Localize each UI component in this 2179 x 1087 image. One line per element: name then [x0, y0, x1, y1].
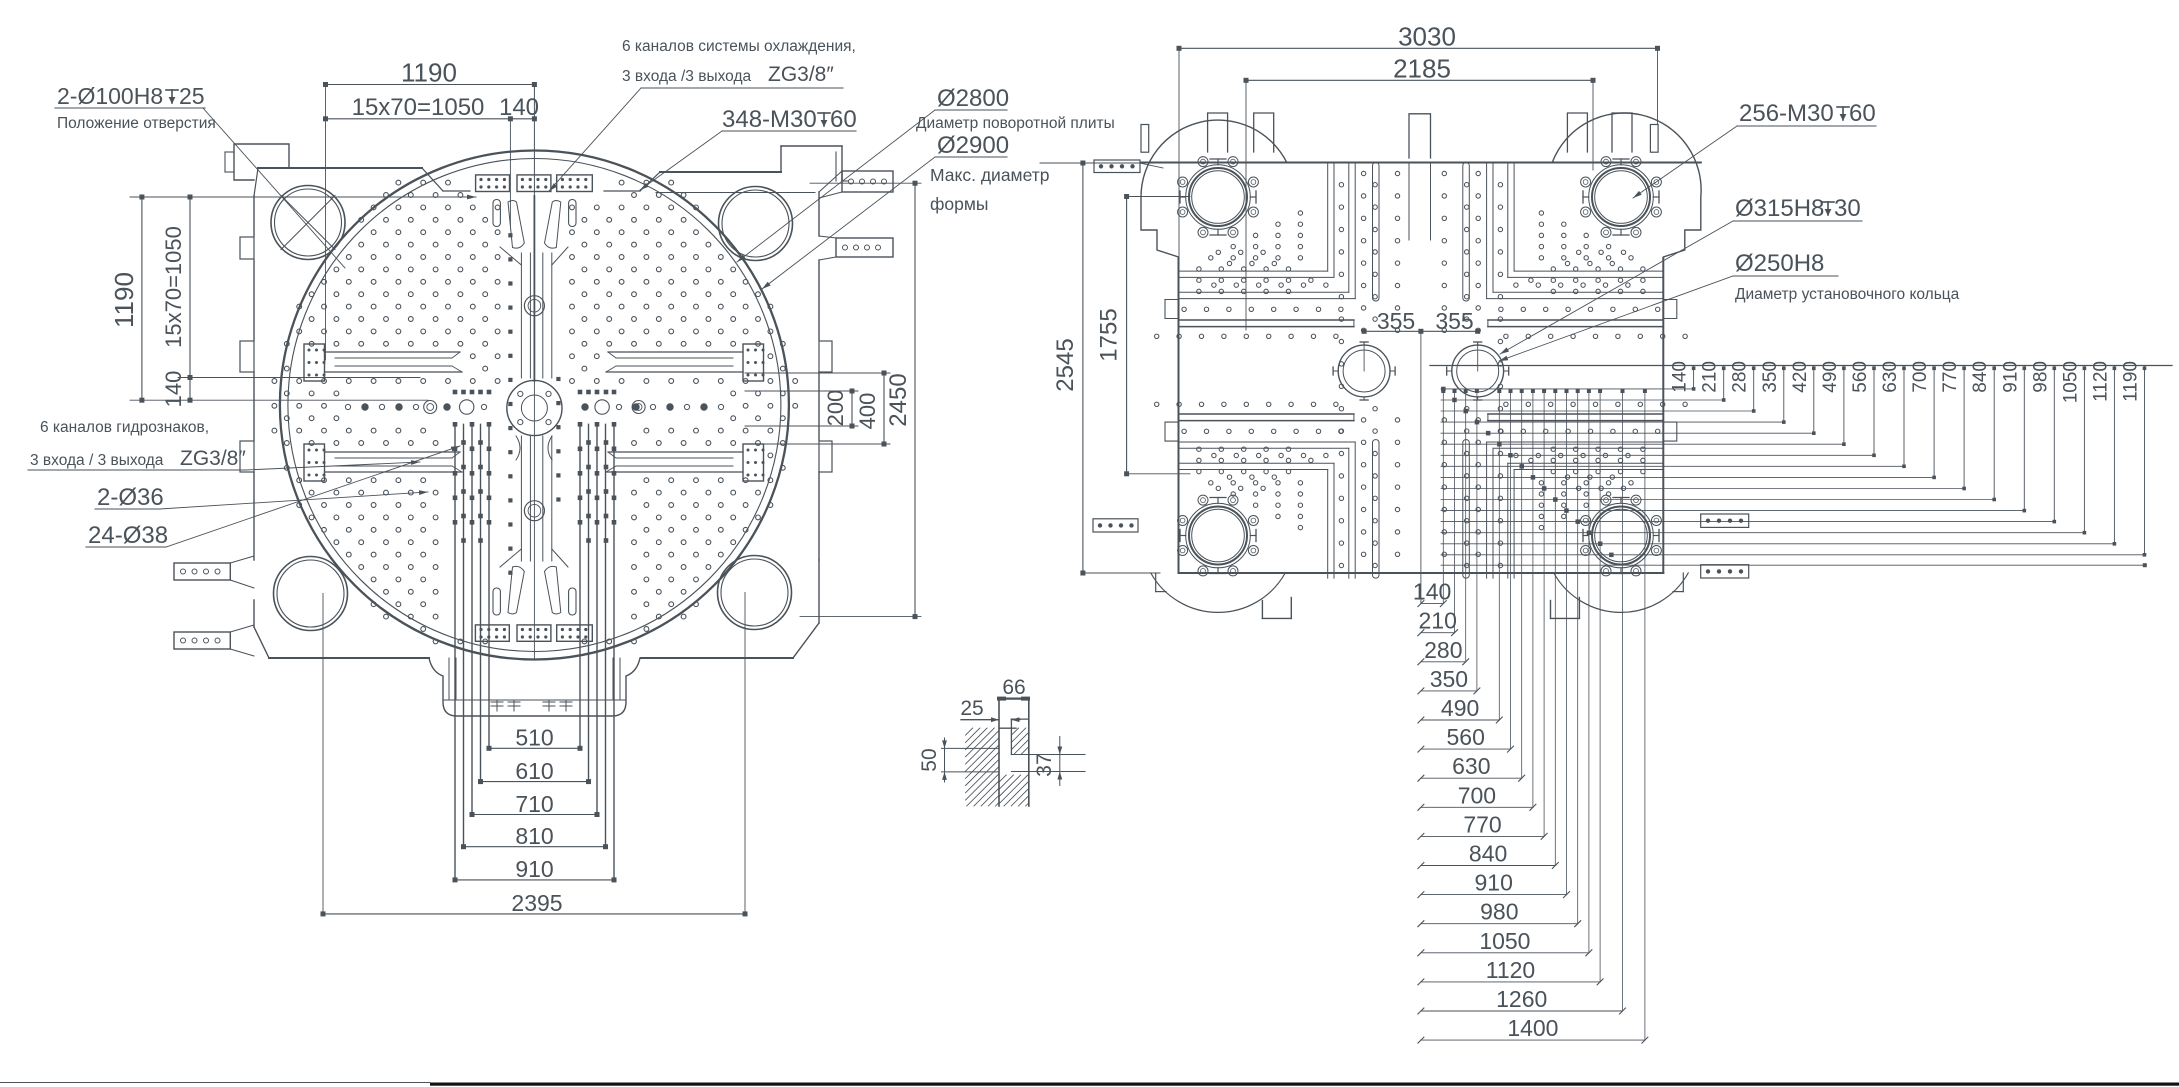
svg-text:280: 280 — [1730, 361, 1751, 393]
svg-text:770: 770 — [1463, 811, 1501, 837]
edge cooling block left-bottom — [1093, 519, 1138, 532]
foot tab bottom-right — [1550, 601, 1552, 619]
extension top mid — [509, 119, 511, 225]
svg-text:490: 490 — [1441, 695, 1479, 721]
hole pattern lattice — [272, 180, 798, 644]
dimension 200 right — [851, 391, 853, 426]
fan reference line — [1430, 365, 2172, 367]
svg-text:840: 840 — [1970, 361, 1991, 393]
svg-text:ZG3/8″: ZG3/8″ — [180, 447, 246, 470]
hydraulic square holes cluster — [453, 422, 458, 427]
svg-text:1260: 1260 — [1496, 986, 1547, 1012]
svg-text:3030: 3030 — [1398, 22, 1456, 52]
left edge T-slot tab upper — [240, 341, 254, 372]
corner hole bottom-left — [274, 557, 348, 631]
right edge tab upper — [819, 341, 832, 372]
leader cooling — [549, 88, 641, 191]
svg-text:700: 700 — [1458, 782, 1496, 808]
svg-text:1120: 1120 — [2090, 361, 2111, 402]
table border line bottom — [430, 1083, 2179, 1086]
top left small tab — [1141, 125, 1149, 153]
dimension 1190 left vertical — [141, 197, 143, 400]
svg-text:140: 140 — [161, 371, 186, 408]
dimension 15x70=1050 left vertical — [189, 197, 191, 400]
top right small tab — [1650, 125, 1658, 153]
svg-text:1050: 1050 — [2060, 361, 2081, 403]
center axis right view — [1420, 331, 1422, 603]
dimension 710 — [472, 814, 597, 816]
svg-text:3 входа /3 выхода: 3 входа /3 выхода — [622, 68, 751, 85]
svg-text:910: 910 — [515, 856, 553, 882]
circle D2800 rotary plate diameter — [288, 159, 781, 652]
dimension 810 — [464, 846, 606, 848]
ear bottom-left — [1151, 573, 1285, 612]
foot tab bottom-left — [1261, 601, 1263, 619]
svg-text:910: 910 — [2000, 361, 2021, 393]
svg-text:15x70=1050: 15x70=1050 — [352, 94, 485, 121]
svg-text:Положение отверстия: Положение отверстия — [57, 115, 216, 132]
center column lower ribs — [520, 436, 522, 561]
svg-text:560: 560 — [1447, 724, 1485, 750]
bottom center cooling connector block 2 — [517, 625, 551, 641]
svg-text:280: 280 — [1424, 637, 1462, 663]
svg-text:ZG3/8″: ZG3/8″ — [768, 63, 834, 86]
dimension 15x70=1050 and 140 top — [326, 118, 535, 120]
detail dim 37 — [1059, 737, 1061, 786]
svg-text:140: 140 — [1670, 361, 1691, 393]
svg-text:1050: 1050 — [1479, 928, 1530, 954]
svg-text:420: 420 — [1790, 361, 1811, 393]
top center cooling connector block 3 — [557, 175, 593, 192]
svg-text:37: 37 — [1033, 753, 1056, 776]
right dims extensions — [745, 372, 890, 374]
right edge tab lower — [819, 441, 832, 472]
tie-bar holes with bolt circles — [1186, 165, 1251, 230]
right view: fixed platen outline — [1141, 162, 1701, 164]
upper small hole D36 — [524, 296, 544, 316]
leader 2-D36 — [160, 492, 428, 509]
svg-text:400: 400 — [855, 393, 880, 430]
svg-text:формы: формы — [930, 194, 988, 214]
corner hole top-right — [719, 187, 793, 261]
dimension 910 — [455, 879, 614, 881]
bottom ladder dimensions — [1421, 603, 1443, 605]
section hatching — [966, 728, 1029, 806]
section detail: T-slot profile — [999, 697, 1029, 699]
T-slot arm lower-right with end block — [743, 444, 764, 481]
svg-text:Макс. диаметр: Макс. диаметр — [930, 165, 1049, 185]
svg-text:348-M30: 348-M30 — [722, 106, 817, 133]
svg-text:510: 510 — [515, 725, 553, 751]
hole pattern right view — [1155, 171, 1688, 567]
svg-text:6 каналов системы охлаждения,: 6 каналов системы охлаждения, — [622, 38, 856, 55]
left edge hydraulic block upper — [174, 563, 230, 580]
left dims extension bottom — [130, 399, 428, 401]
dimension 510 — [489, 747, 580, 749]
corner hole top-left 2-D100H8 — [271, 186, 345, 260]
top center cooling connector block 2 — [517, 175, 551, 192]
bottom-left chamfer — [254, 627, 269, 658]
T-slot arm upper-left with end block — [304, 344, 325, 381]
svg-text:25: 25 — [179, 83, 205, 109]
left edge hydraulic block lower — [174, 632, 230, 649]
svg-text:140: 140 — [499, 94, 539, 121]
svg-text:210: 210 — [1419, 608, 1457, 634]
left edge small step — [240, 237, 254, 259]
right edge block upper B — [836, 238, 893, 257]
svg-text:630: 630 — [1452, 753, 1490, 779]
svg-text:Ø2900: Ø2900 — [937, 132, 1009, 159]
top center cooling connector block 1 — [476, 175, 510, 192]
leader hydraulic — [246, 462, 420, 470]
svg-text:350: 350 — [1760, 361, 1781, 393]
svg-text:630: 630 — [1880, 361, 1901, 393]
dimension 1190 top — [326, 84, 535, 86]
svg-text:490: 490 — [1820, 361, 1841, 393]
center boss circle — [507, 380, 562, 435]
top-left stepped tab — [234, 144, 289, 180]
ear bottom-right — [1554, 573, 1688, 612]
leader D315H8 — [1500, 221, 1733, 354]
left edge T-slot tab lower — [240, 441, 254, 472]
dimension 2185 — [1246, 79, 1593, 81]
lower small hole D36 — [524, 501, 544, 521]
left view: rotary platen plate outline — [258, 167, 422, 169]
svg-text:256-M30: 256-M30 — [1739, 100, 1834, 127]
edge cooling block right-top — [1701, 514, 1749, 527]
left dims extension mid — [178, 377, 420, 379]
svg-text:25: 25 — [960, 697, 983, 720]
svg-text:140: 140 — [1413, 579, 1451, 605]
svg-text:700: 700 — [1910, 361, 1931, 393]
dimension 3030 — [1179, 47, 1658, 49]
svg-text:1120: 1120 — [1486, 957, 1535, 983]
dimension 1755 — [1126, 197, 1128, 474]
hydraulic connector row — [345, 404, 723, 410]
leader D250H8 — [1499, 276, 1733, 361]
svg-text:60: 60 — [830, 106, 857, 133]
svg-text:Диаметр поворотной плиты: Диаметр поворотной плиты — [916, 115, 1115, 132]
T-slot arm upper-right with end block — [743, 344, 764, 381]
svg-text:1755: 1755 — [1096, 308, 1123, 361]
lower kidney slots — [493, 588, 500, 615]
svg-text:2-Ø100H8: 2-Ø100H8 — [57, 83, 163, 109]
svg-text:770: 770 — [1940, 361, 1961, 393]
dimension 2395 — [323, 913, 745, 915]
svg-text:2-Ø36: 2-Ø36 — [97, 484, 164, 511]
center axis vertical — [533, 85, 535, 197]
svg-text:Диаметр установочного кольца: Диаметр установочного кольца — [1735, 286, 1960, 303]
svg-text:210: 210 — [1700, 361, 1721, 393]
ear top-left — [1141, 120, 1287, 257]
leader 348-M30 — [640, 131, 722, 190]
circle D2900 max mold diameter — [280, 151, 789, 660]
bottom pedestal — [429, 658, 640, 716]
dimension 355 355 — [1364, 330, 1478, 332]
center column ribs — [520, 253, 522, 378]
svg-text:2450: 2450 — [885, 373, 912, 426]
dimension 2450 right — [914, 183, 916, 616]
ladder extension lines right set — [613, 424, 615, 880]
detail dim 50 — [944, 738, 946, 782]
center tab stem lines — [1408, 163, 1410, 241]
hole column 15x70 markers — [508, 233, 512, 237]
svg-text:610: 610 — [515, 758, 553, 784]
bottom center cooling connector block 3 — [557, 625, 593, 641]
vertical line in right locating hole — [1477, 342, 1479, 371]
svg-text:Ø2800: Ø2800 — [937, 85, 1009, 112]
svg-text:15x70=1050: 15x70=1050 — [161, 226, 186, 348]
extension top left — [325, 85, 327, 361]
svg-text:30: 30 — [1834, 195, 1861, 222]
ear top-right — [1552, 113, 1701, 257]
vertical line in left locating hole — [1363, 342, 1365, 371]
svg-text:710: 710 — [515, 791, 553, 817]
svg-text:840: 840 — [1469, 841, 1507, 867]
bottom center cooling connector block 1 — [475, 625, 509, 641]
svg-text:980: 980 — [1480, 899, 1518, 925]
top-right tab — [781, 145, 842, 147]
dimension 2545 — [1082, 163, 1084, 573]
svg-text:1190: 1190 — [109, 272, 139, 328]
pocket L-channels — [1327, 163, 1329, 272]
cross slash in top-left corner hole — [281, 196, 335, 250]
svg-text:355: 355 — [1377, 308, 1415, 334]
fan bottom extension line — [1441, 564, 2145, 566]
dimension 610 — [481, 781, 589, 783]
leader 24-D38 — [166, 446, 460, 547]
svg-text:2185: 2185 — [1393, 54, 1451, 84]
svg-text:810: 810 — [515, 823, 553, 849]
bottom-right chamfer — [793, 623, 819, 658]
spool shape below boss — [516, 436, 520, 460]
leader D2900 — [762, 157, 935, 289]
svg-text:1190: 1190 — [401, 58, 457, 88]
left dims extension top — [130, 196, 476, 198]
svg-text:3 входа / 3 выхода: 3 входа / 3 выхода — [30, 452, 164, 469]
svg-text:560: 560 — [1850, 361, 1871, 393]
leader 256-M30 — [1633, 126, 1737, 198]
top tabs — [1208, 113, 1228, 152]
svg-text:910: 910 — [1475, 870, 1513, 896]
svg-text:1190: 1190 — [2121, 361, 2142, 402]
svg-text:Ø315H8: Ø315H8 — [1735, 195, 1824, 222]
svg-text:980: 980 — [2030, 361, 2051, 393]
svg-text:66: 66 — [1002, 676, 1025, 699]
svg-text:1400: 1400 — [1507, 1015, 1558, 1041]
svg-text:60: 60 — [1849, 100, 1876, 127]
extension for 2395 right — [744, 593, 746, 914]
upper kidney slots — [493, 200, 500, 227]
right edge block upper A — [842, 171, 893, 192]
T-slot arm lower-left with end block — [304, 444, 325, 481]
svg-text:Ø250H8: Ø250H8 — [1735, 250, 1824, 277]
detail dim 25 — [961, 719, 999, 721]
svg-text:200: 200 — [823, 390, 848, 427]
svg-text:24-Ø38: 24-Ø38 — [88, 522, 168, 549]
extension for 2395 left — [322, 594, 324, 914]
svg-text:2545: 2545 — [1052, 338, 1079, 391]
fan dimension brackets — [1693, 366, 1695, 389]
svg-text:350: 350 — [1430, 666, 1468, 692]
svg-text:2395: 2395 — [511, 890, 562, 916]
pedestal thread symbols — [491, 701, 503, 703]
leader 2-D100H8 — [203, 108, 345, 268]
edge cooling block left-top — [1094, 160, 1140, 173]
edge cooling block right-bottom — [1701, 565, 1749, 578]
svg-text:6 каналов гидрознаков,: 6 каналов гидрознаков, — [40, 419, 209, 436]
dimension 400 right — [883, 373, 885, 444]
leader D2800 — [737, 110, 935, 262]
ladder extension lines left set — [454, 424, 456, 880]
svg-text:50: 50 — [918, 748, 941, 771]
corner hole bottom-right — [718, 556, 792, 630]
center locating holes D315 D250 — [1338, 345, 1390, 397]
